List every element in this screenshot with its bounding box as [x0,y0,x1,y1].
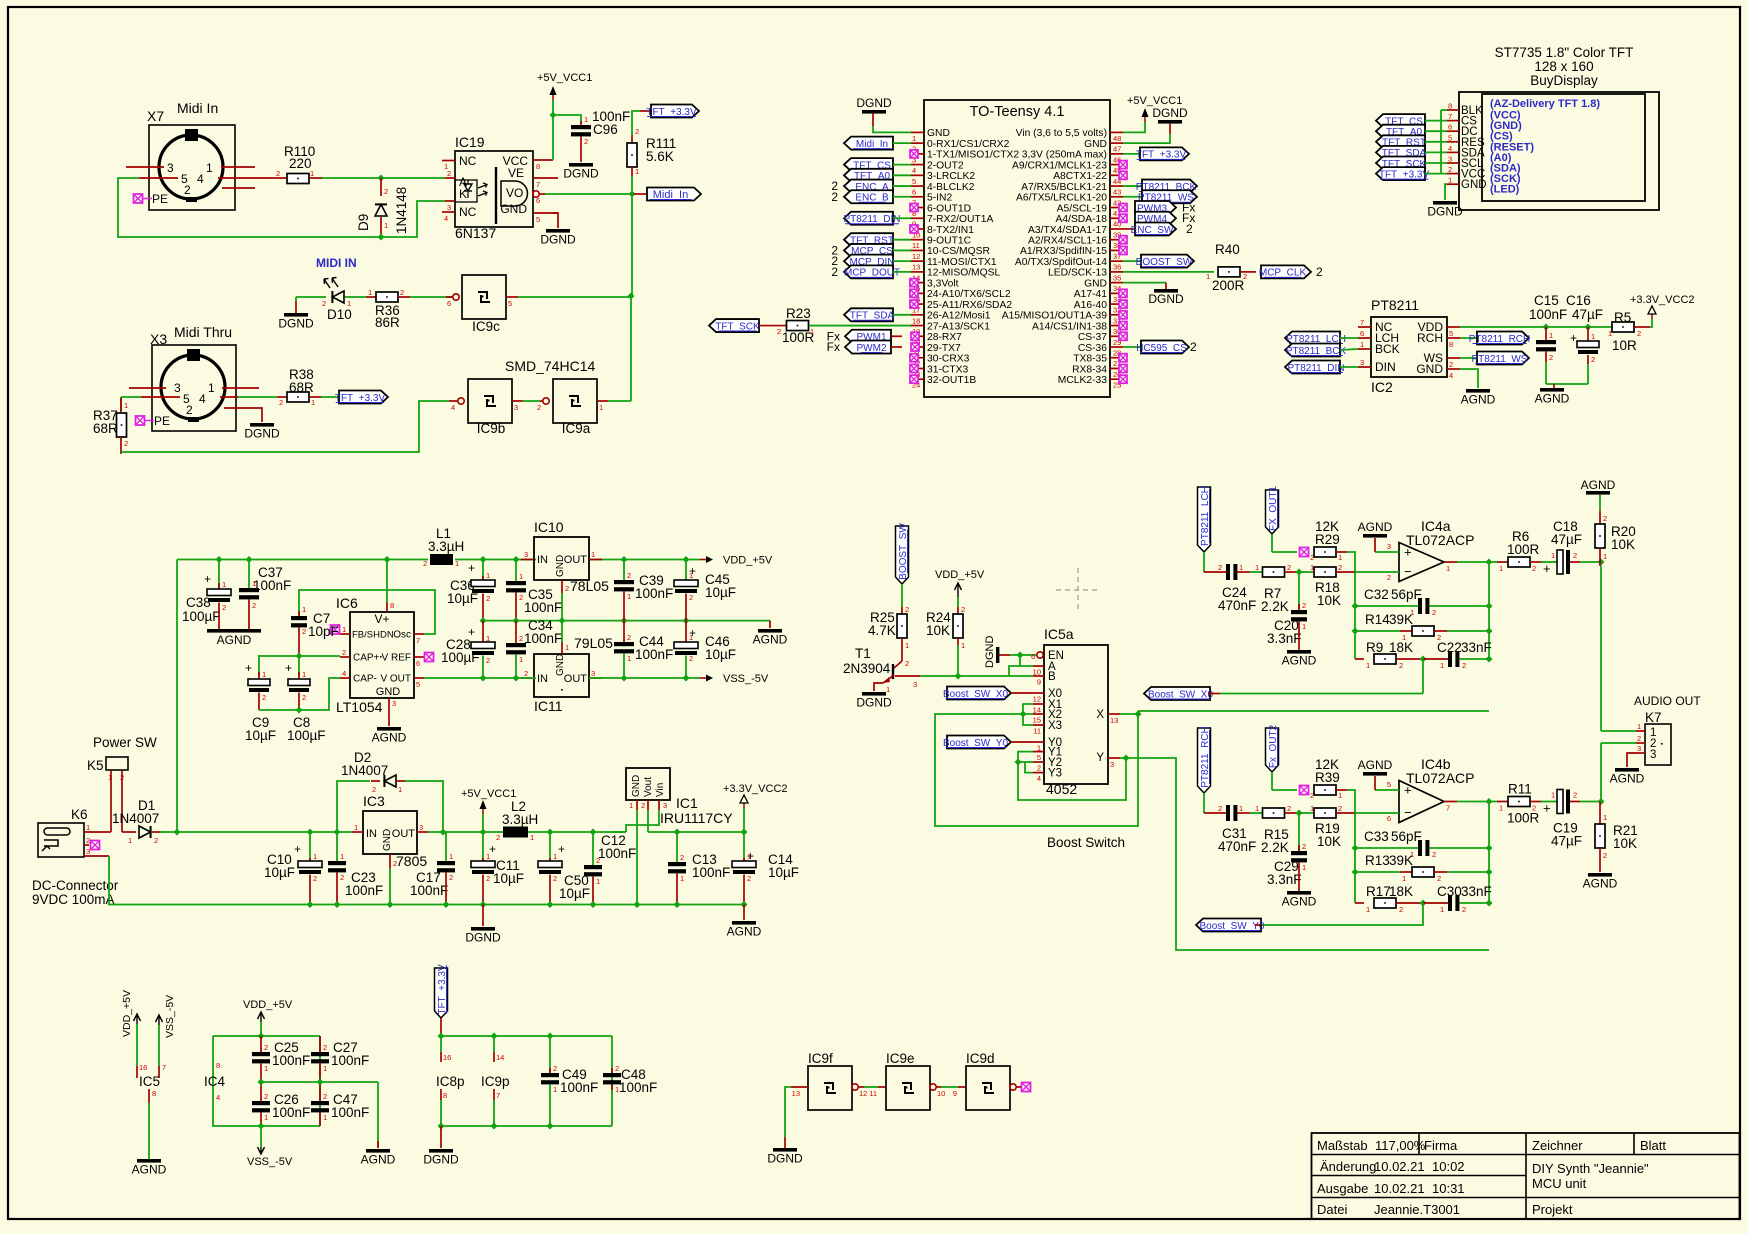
svg-text:1: 1 [591,550,595,559]
svg-text:2: 2 [1462,905,1466,914]
svg-text:6: 6 [536,196,540,205]
wire IC1 GND to rail [636,810,638,905]
svg-text:+5V_VCC1: +5V_VCC1 [461,788,516,800]
svg-text:12: 12 [859,1089,867,1098]
Teensy pin names and stubs [911,128,1123,389]
svg-text:IC9f: IC9f [808,1051,833,1066]
capacitor C18 47uF [1541,519,1605,576]
svg-text:A1/RX3/SpdifIN-15: A1/RX3/SpdifIN-15 [1020,246,1107,257]
IC5a pin stubs [1031,652,1120,783]
svg-text:NC: NC [459,205,477,219]
unconnected cross at FB/SHDN [331,625,340,634]
svg-text:1: 1 [519,655,523,664]
svg-text:MIDI IN: MIDI IN [316,256,357,270]
capacitor C49 100nF [541,1036,598,1126]
resistor R38 68R [238,367,321,407]
capacitor C16 47uF [1566,293,1603,384]
svg-text:3.3nF: 3.3nF [1267,872,1302,887]
wire Boost_SW_Y0 feedback link [1261,903,1423,925]
wire DGND to IC9f [785,1087,791,1148]
svg-text:IC8p: IC8p [436,1074,465,1089]
svg-text:R40: R40 [1215,242,1240,257]
svg-text:10µF: 10µF [493,871,524,886]
svg-text:5: 5 [536,215,540,224]
optocoupler IC19 6N137 [455,134,533,241]
svg-text:6: 6 [912,188,916,197]
svg-text:1: 1 [124,401,128,410]
svg-text:48: 48 [1113,134,1121,143]
connector K7 AUDIO OUT [1634,694,1701,765]
svg-text:56pF: 56pF [1391,587,1422,602]
wire AGND mid rail [480,617,771,624]
svg-text:VE: VE [508,166,524,180]
svg-text:2: 2 [1637,329,1641,338]
power VSS_-5V below IC4 [247,1123,293,1169]
svg-text:1: 1 [449,852,453,861]
svg-text:100nF: 100nF [331,1053,369,1068]
svg-text:2: 2 [1603,851,1607,860]
gate IC9f [791,1051,867,1110]
svg-text:DGND: DGND [1427,205,1463,219]
net flag TFT_+3.3V at R111 [632,105,699,136]
wire V+ to rail [386,560,388,603]
svg-text:GND: GND [1461,179,1487,191]
svg-text:2: 2 [222,603,226,612]
svg-text:68R: 68R [93,421,118,436]
svg-text:AGND: AGND [1610,772,1645,786]
svg-text:24-A10/TX6/SCL2: 24-A10/TX6/SCL2 [927,289,1011,300]
svg-text:16: 16 [139,1063,147,1072]
svg-text:TO-Teensy 4.1: TO-Teensy 4.1 [970,104,1065,120]
svg-text:R9: R9 [1366,640,1383,655]
origin cross [1056,568,1100,612]
net flag FX_OUT1 vertical [1266,486,1279,552]
wire IC4a output node [1457,559,1493,660]
svg-text:1: 1 [1446,564,1450,573]
net flag PT8211_RCH vertical [1198,726,1227,813]
svg-text:IC1: IC1 [676,795,698,811]
wire IC4b output node [1457,798,1493,903]
gate IC9b [449,379,523,436]
svg-text:2: 2 [124,439,128,448]
label SMD_74HC14 [505,358,595,374]
svg-text:A5/SCL-19: A5/SCL-19 [1057,203,1108,214]
svg-text:2: 2 [565,584,569,593]
svg-text:1: 1 [1637,722,1641,731]
ground AGND at IC5 [132,1159,167,1177]
svg-text:1: 1 [961,641,965,650]
svg-text:AGND: AGND [372,731,407,745]
svg-text:10µF: 10µF [705,585,736,600]
svg-text:Y: Y [1096,752,1104,764]
wire Midi_In to IC9c net [631,194,633,296]
svg-text:Maßstab: Maßstab [1317,1138,1368,1153]
svg-text:+: + [1543,801,1551,816]
svg-text:1: 1 [553,1085,557,1094]
svg-text:2: 2 [496,833,500,842]
svg-text:47: 47 [1113,145,1121,154]
svg-text:10.02.21: 10.02.21 [1374,1159,1425,1174]
svg-text:A14/CS1/IN1-38: A14/CS1/IN1-38 [1032,321,1107,332]
svg-text:200R: 200R [1212,278,1245,293]
capacitor C22 33nF [1420,640,1493,670]
svg-text:GND: GND [376,686,401,698]
svg-text:39K: 39K [1389,853,1413,868]
capacitor C35 100nF [506,560,562,621]
svg-text:2.2K: 2.2K [1261,599,1289,614]
svg-text:2: 2 [747,874,751,883]
svg-text:11: 11 [869,1089,877,1098]
svg-text:2: 2 [1338,804,1342,813]
resistor R40 200R [1123,242,1256,293]
svg-text:C38: C38 [186,595,211,610]
svg-text:K6: K6 [71,807,88,822]
svg-text:AGND: AGND [753,633,788,647]
svg-text:IC9e: IC9e [886,1051,915,1066]
svg-text:1: 1 [1255,563,1259,572]
arrow VSS_-5V rail [700,673,769,685]
svg-text:8: 8 [390,601,394,610]
svg-text:AGND: AGND [132,1163,167,1177]
svg-text:39K: 39K [1389,612,1413,627]
svg-text:2: 2 [905,659,909,668]
svg-text:1: 1 [222,580,226,589]
svg-text:9-OUT1C: 9-OUT1C [927,236,972,247]
net flag TFT_+3.3V at R38 [321,391,388,404]
svg-text:470nF: 470nF [1218,839,1256,854]
ground DGND at X3 pin2 [244,408,280,441]
svg-text:18K: 18K [1389,884,1413,899]
svg-text:A9/CRX1/MCLK1-23: A9/CRX1/MCLK1-23 [1012,160,1107,171]
TFT net flags [1376,114,1447,180]
resistor R5 10R [1608,310,1650,353]
svg-text:2: 2 [447,169,451,178]
svg-text:IC5a: IC5a [1044,626,1074,642]
svg-text:2: 2 [184,183,191,197]
gate IC9c [410,275,518,334]
svg-text:15: 15 [1033,716,1041,725]
svg-text:1: 1 [252,579,256,588]
svg-text:+5V_VCC1: +5V_VCC1 [537,72,592,84]
svg-text:Vin: Vin [655,783,666,797]
net flag MCP_CLK 2 [1259,265,1323,279]
svg-text:DGND: DGND [540,233,576,247]
svg-text:2: 2 [1190,340,1197,354]
svg-text:D9: D9 [356,214,371,231]
svg-text:6: 6 [416,659,420,668]
title block [1312,1133,1740,1219]
svg-text:2: 2 [342,648,346,657]
net flag PWM1 with Fx [827,329,902,343]
svg-text:13: 13 [1110,716,1118,725]
svg-text:A6/TX5/LRCLK1-20: A6/TX5/LRCLK1-20 [1016,193,1107,204]
svg-text:4: 4 [197,172,204,186]
svg-text:1: 1 [627,654,631,663]
power +5V_VCC1 at IC3 [461,788,516,832]
svg-text:10pF: 10pF [308,624,339,639]
svg-text:Midi Thru: Midi Thru [174,324,232,340]
svg-text:4: 4 [444,214,448,223]
diode D2 1N4007 [337,750,443,832]
svg-text:2: 2 [400,288,404,297]
svg-text:56pF: 56pF [1391,829,1422,844]
svg-text:1N4148: 1N4148 [394,187,409,234]
svg-text:X7: X7 [147,108,164,124]
svg-text:10K: 10K [1317,593,1341,608]
svg-text:2: 2 [154,836,158,845]
arrow VDD_+5V rail [700,555,773,567]
svg-text:29-TX7: 29-TX7 [927,343,961,354]
svg-text:2: 2 [252,601,256,610]
capacitor C37 100nF [239,560,291,630]
svg-text:10K: 10K [926,623,950,638]
svg-text:0-RX1/CS1/CRX2: 0-RX1/CS1/CRX2 [927,139,1010,150]
svg-text:Zeichner: Zeichner [1532,1138,1583,1153]
capacitor C13 100nF [668,832,730,905]
svg-text:IC9d: IC9d [966,1051,995,1066]
svg-text:3: 3 [1360,358,1364,367]
svg-text:+: + [558,842,565,856]
wire IC4b feedback left rail [1352,813,1359,903]
svg-text:1: 1 [596,877,600,886]
wire Midi_In node [545,176,648,198]
power +3.3V_VCC2 at IC1 [723,783,788,832]
resistor R11 100R [1489,782,1541,826]
svg-text:R39: R39 [1315,770,1340,785]
svg-text:VSS_-5V: VSS_-5V [164,995,176,1038]
svg-text:1: 1 [1603,552,1607,561]
svg-text:10µF: 10µF [264,865,295,880]
power +3.3V_VCC2 at R5 [1630,294,1695,327]
net flag Boost_SW_Y0 left [1196,919,1265,932]
svg-text:100nF: 100nF [345,883,383,898]
capacitor C14 10uF [732,832,799,905]
svg-text:2: 2 [537,403,541,412]
net flag Fx_OUT2 vertical [1266,724,1279,790]
capacitor C48 100nF [603,1064,657,1095]
wire IC4 mid rail to AGND [258,1079,379,1149]
wire TFT BLK to VCC [1441,110,1447,174]
svg-text:2N3904: 2N3904 [843,661,891,676]
svg-text:AGND: AGND [1282,895,1317,909]
svg-text:CS-36: CS-36 [1078,343,1107,354]
ic IC5a 4052 [1044,626,1108,797]
ground AGND at K7 pin3 [1610,753,1645,786]
svg-text:1: 1 [486,571,490,580]
svg-text:2: 2 [1302,842,1306,851]
svg-text:2: 2 [1316,265,1323,279]
svg-text:Osc: Osc [393,630,411,641]
svg-text:+: + [468,561,475,575]
svg-text:1: 1 [398,785,402,794]
svg-text:1N4007: 1N4007 [112,811,159,826]
svg-text:1: 1 [747,852,751,861]
svg-text:1: 1 [553,852,557,861]
svg-text:10K: 10K [1613,836,1637,851]
svg-text:VDD_+5V: VDD_+5V [723,555,773,567]
svg-text:1: 1 [1239,563,1243,572]
svg-text:2: 2 [423,559,427,568]
svg-text:CAP+: CAP+ [353,653,380,664]
ic IC9p power pins [481,1036,510,1126]
ic IC1 IRU1117CY [626,768,733,826]
wire C8 C9 to CAP- [259,678,340,714]
svg-text:AGND: AGND [1358,758,1393,772]
svg-text:+: + [245,661,252,675]
svg-text:IC9p: IC9p [481,1074,510,1089]
svg-text:A0/TX3/SpdifOut-14: A0/TX3/SpdifOut-14 [1015,257,1107,268]
svg-text:1: 1 [1239,804,1243,813]
svg-text:10-CS/MQSR: 10-CS/MQSR [927,246,990,257]
wire rail riser from D1 [176,560,178,833]
svg-text:2: 2 [393,859,397,868]
svg-text:Midi In: Midi In [177,100,218,116]
svg-text:DGND: DGND [984,636,996,668]
svg-text:2: 2 [596,856,600,865]
wire D9 to IC19 pin3 [381,201,445,237]
svg-text:3: 3 [419,823,423,832]
ground AGND above IC4a [1358,520,1393,552]
svg-text:R17: R17 [1366,884,1391,899]
svg-text:2: 2 [584,137,588,146]
svg-text:VDD_+5V: VDD_+5V [121,990,133,1037]
net flag PWM2 with Fx [827,340,902,354]
svg-text:IC10: IC10 [534,519,564,535]
svg-text:3,3V (250mA max): 3,3V (250mA max) [1022,150,1107,161]
svg-text:35: 35 [1113,273,1121,282]
svg-text:1: 1 [886,685,890,694]
svg-text:1: 1 [486,634,490,643]
svg-text:13: 13 [792,1089,800,1098]
wire X7 pin5 return [118,178,381,237]
svg-text:2: 2 [1532,564,1536,573]
net flag TFT_+3.3V at Teensy [1123,147,1189,160]
svg-text:8: 8 [1449,340,1453,349]
svg-text:7: 7 [1360,318,1364,327]
svg-text:12-MISO/MQSL: 12-MISO/MQSL [927,268,1001,279]
svg-text:AGND: AGND [1282,654,1317,668]
capacitor C12 100nF [584,832,636,905]
net flag BOOST_SW at Teensy [1123,255,1194,268]
svg-text:7: 7 [162,1063,166,1072]
X3 pin stubs [129,388,260,408]
svg-text:IC11: IC11 [534,698,563,714]
ground AGND below C38 C37 [207,629,261,647]
svg-text:7: 7 [416,636,420,645]
svg-text:A7/RX5/BCLK1-21: A7/RX5/BCLK1-21 [1021,182,1107,193]
svg-text:4-BLCLK2: 4-BLCLK2 [927,182,975,193]
wire VCC1 to IC19 pin8 [550,112,557,161]
svg-text:1: 1 [340,852,344,861]
svg-text:16: 16 [443,1053,451,1062]
svg-text:R13: R13 [1365,853,1390,868]
svg-text:30-CRX3: 30-CRX3 [927,354,970,365]
svg-text:1: 1 [530,833,534,842]
svg-text:+: + [285,661,292,675]
svg-text:(LED): (LED) [1490,184,1520,196]
power +5V_VCC1 at Teensy Vin [1123,95,1182,132]
svg-text:1: 1 [302,670,306,679]
svg-text:AUDIO OUT: AUDIO OUT [1634,694,1701,708]
svg-text:3.3µH: 3.3µH [428,539,464,554]
svg-text:DGND: DGND [423,1153,459,1167]
capacitor C27 100nF [311,1036,369,1082]
svg-text:3: 3 [392,699,396,708]
svg-text:AGND: AGND [217,633,252,647]
svg-text:3: 3 [86,847,90,856]
wire Y output loop to Y1 Y2 Y3 [1015,752,1130,800]
svg-text:AGND: AGND [727,925,762,939]
svg-text:33nF: 33nF [1461,884,1492,899]
svg-text:2: 2 [1549,353,1553,362]
svg-text:100nF: 100nF [331,1105,369,1120]
svg-text:6: 6 [1031,652,1035,661]
svg-text:C15: C15 [1534,293,1559,308]
net flag HC595_CS 2 [1123,340,1197,354]
diode D9 1N4148 [356,178,409,241]
svg-text:FB/SHDN: FB/SHDN [352,630,394,641]
svg-text:3: 3 [913,680,917,689]
svg-text:GND: GND [500,202,527,216]
svg-text:5.6K: 5.6K [646,149,674,164]
svg-text:1: 1 [384,221,388,230]
TFT module labels [1490,98,1600,196]
power VDD_+5V at R24 [935,569,985,607]
connector X7 Midi In [147,100,235,210]
svg-text:4: 4 [1448,144,1452,153]
svg-text:8: 8 [1448,102,1452,111]
svg-text:2: 2 [1603,514,1607,523]
svg-text:IRU1117CY: IRU1117CY [660,810,733,826]
net flag PT8211_BCK at IC2 [1285,344,1358,357]
label ST7735 TFT [1495,45,1634,88]
svg-text:X: X [1096,709,1104,721]
TFT pin names [1447,102,1487,192]
capacitor C28 100uF [441,621,495,678]
svg-text:14: 14 [496,1053,504,1062]
svg-text:2: 2 [615,1064,619,1073]
svg-text:3: 3 [1650,749,1656,761]
wire Boost_SW_X0 right link [1144,659,1423,700]
svg-text:2: 2 [264,1043,268,1052]
svg-text:AGND: AGND [1581,478,1616,492]
svg-text:K5: K5 [87,758,104,773]
svg-text:C16: C16 [1566,293,1591,308]
svg-text:Fx: Fx [827,340,840,354]
svg-text:2: 2 [1243,272,1247,281]
svg-text:2: 2 [961,605,965,614]
resistor R13 39K [1355,853,1493,883]
svg-text:9VDC 100mA: 9VDC 100mA [32,892,115,907]
svg-text:R14: R14 [1365,612,1390,627]
svg-text:DGND: DGND [767,1152,803,1166]
svg-text:2: 2 [627,571,631,580]
svg-text:4: 4 [342,669,346,678]
resistor R17 18K [1355,884,1423,914]
gate IC9d [941,1051,1022,1110]
net flag PWM4 with Fx [1119,211,1195,225]
svg-text:2: 2 [777,327,781,336]
wire EN node [1010,652,1036,667]
svg-text:VDD_+5V: VDD_+5V [935,569,985,581]
capacitor C46 10uF [674,621,736,678]
svg-text:4052: 4052 [1046,781,1077,797]
svg-text:2: 2 [1448,165,1452,174]
svg-text:6: 6 [1448,123,1452,132]
ground DGND below IC19 [540,213,576,247]
power +5V_VCC1 at IC19 [537,72,592,115]
ground AGND at mid rail [753,621,788,647]
